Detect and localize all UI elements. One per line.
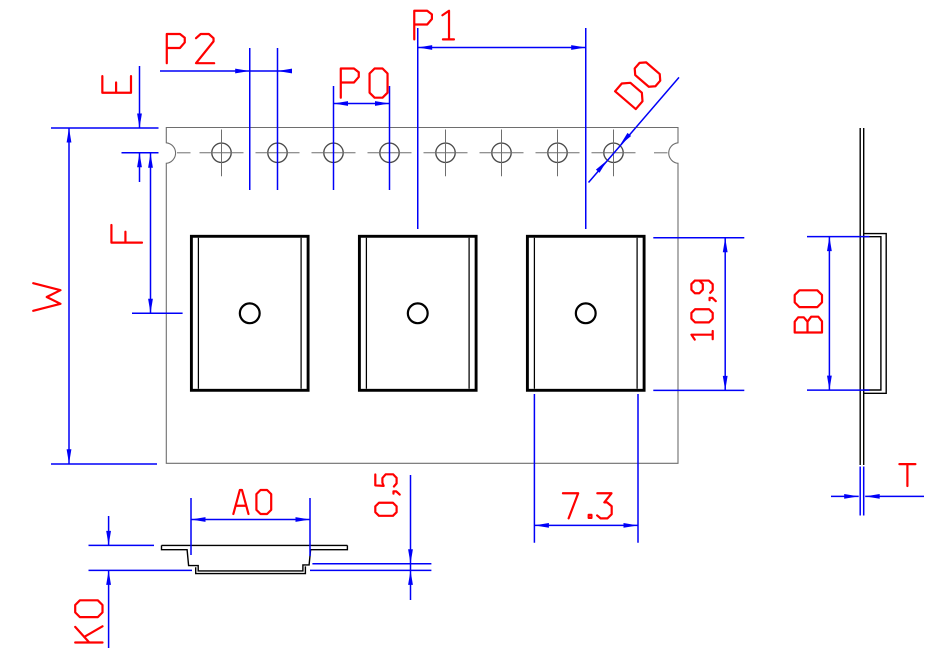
label D0: [615, 59, 663, 109]
dimension B0 arrow up: [827, 237, 832, 252]
dimension K0 line upper: [108, 516, 110, 545]
dimension A0 extension line right: [309, 498, 311, 556]
pocket 1 center hole: [240, 303, 260, 323]
dimension A0 arrow left: [191, 517, 206, 522]
dimension 7.3 extension line right: [637, 394, 639, 543]
carrier tape outline (plan view): [166, 128, 678, 464]
dimension E line upper: [139, 66, 141, 128]
dimension P2 arrow left: [278, 69, 293, 74]
pocket cross-section body: [162, 545, 348, 571]
dimension 7.3 extension line left: [533, 394, 535, 543]
dimension D0 arrow upper: [620, 133, 631, 146]
dimension E extension line at hole centerline: [122, 152, 159, 154]
label B0: [795, 290, 822, 332]
dimension 7.3 arrow left: [534, 523, 549, 528]
dimension D0 arrow lower: [596, 160, 607, 173]
dimension B0 extension line bottom: [807, 389, 870, 391]
dimension T line left: [831, 495, 859, 497]
pocket 2 left inner wall line: [365, 238, 367, 389]
dimension T arrow left: [865, 494, 880, 499]
sprocket hole 6: [480, 130, 524, 177]
dimension W line: [68, 128, 70, 464]
dimension E line lower: [139, 153, 141, 182]
dimension 0,5 arrow up: [408, 570, 413, 585]
dimension K0 arrow up: [106, 570, 111, 585]
pocket cross-section top surface: [162, 544, 348, 546]
label K0: [75, 600, 102, 642]
dimension K0 arrow down: [106, 531, 111, 546]
label E: [102, 76, 131, 93]
dimension P2 line: [160, 70, 292, 72]
pocket 1 left inner wall line: [197, 238, 199, 389]
dimension K0 line lower: [108, 570, 110, 648]
pocket 2 right inner wall line: [468, 238, 470, 389]
dimension T arrow right: [844, 494, 859, 499]
dimension 10,9 arrow down: [723, 376, 728, 391]
side view pocket bump inner: [864, 237, 881, 390]
label A0: [233, 490, 271, 514]
dimension P0 arrow right: [375, 101, 390, 106]
dimension P1 arrow right: [571, 45, 586, 50]
dimension B0 arrow down: [827, 376, 832, 391]
sprocket hole 1: [200, 130, 244, 177]
side view tape left surface: [859, 128, 861, 465]
pocket 3 outline: [527, 236, 644, 390]
label W: [33, 283, 60, 311]
pocket 1 right inner wall line: [300, 238, 302, 389]
sprocket hole 7: [536, 130, 580, 177]
dimension B0 line: [828, 237, 830, 391]
sprocket hole 8: [592, 130, 636, 177]
left edge notch centerline dash: [177, 152, 191, 154]
dimension K0 extension line bottom: [89, 569, 193, 571]
dimension P0 extension line at sprocket hole 4: [389, 86, 391, 190]
pocket cross-section floor outer line: [196, 566, 306, 573]
dimension D0 leader line: [589, 77, 680, 182]
dimension B0 extension line top: [807, 236, 870, 238]
label 10,9: [691, 281, 715, 340]
dimension E arrow up: [137, 153, 142, 168]
dimension W extension line top: [51, 127, 159, 129]
sprocket hole 5: [424, 130, 468, 177]
side view pocket bump outer: [864, 234, 887, 394]
dimension P2 extension line at pocket 1 center: [249, 48, 251, 190]
dimension 10,9 extension line top: [653, 237, 744, 239]
dimension A0 extension line left: [190, 498, 192, 555]
dimension W arrow down: [67, 449, 72, 464]
dimension F extension line at pocket centerline: [132, 312, 183, 314]
pocket 2 outline: [359, 236, 476, 390]
dimension T extension line right: [863, 467, 865, 516]
sprocket hole 4: [368, 130, 412, 177]
dimension 10,9 extension line bottom: [653, 389, 744, 391]
dimension A0 line: [191, 519, 310, 521]
sprocket hole 3: [312, 130, 356, 177]
dimension 10,9 line: [724, 238, 726, 391]
label P1: [414, 11, 454, 40]
pocket 2 center hole: [408, 303, 428, 323]
dimension P2 extension line at sprocket hole 2: [277, 48, 279, 190]
dimension 0,5 extension line upper: [312, 563, 431, 565]
dimension F arrow down: [148, 299, 153, 314]
dimension E arrow down: [137, 114, 142, 129]
dimension A0 arrow right: [296, 517, 311, 522]
dimension F line: [150, 153, 152, 313]
dimension 7.3 arrow right: [624, 523, 639, 528]
dimension 0,5 arrow down: [408, 549, 413, 564]
dimension P1 line: [418, 47, 586, 49]
label 7.3: [563, 493, 612, 518]
pocket 1 outline: [191, 236, 308, 390]
right edge notch centerline dash: [654, 152, 668, 154]
dimension T line right: [865, 495, 924, 497]
pocket 3 left inner wall line: [533, 238, 535, 389]
dimension P0 line: [334, 103, 390, 105]
dimension F arrow up: [148, 153, 153, 168]
label F: [111, 225, 142, 243]
dimension P1 arrow left: [418, 45, 432, 50]
pocket 3 center hole: [576, 303, 596, 323]
dimension 0,5 extension line lower: [310, 569, 431, 571]
dimension K0 extension line top: [89, 544, 155, 546]
label T: [899, 464, 915, 486]
dimension P0 extension line at sprocket hole 3: [333, 86, 335, 190]
dimension W extension line bottom: [51, 463, 157, 465]
dimension 0,5 line: [410, 475, 412, 600]
dimension P2 arrow right: [235, 69, 250, 74]
dimension W arrow up: [67, 128, 72, 143]
dimension P0 arrow left: [334, 101, 349, 106]
pocket 3 right inner wall line: [636, 238, 638, 389]
label 0,5: [375, 474, 399, 515]
label P2: [167, 34, 214, 63]
label P0: [341, 68, 388, 97]
dimension 7.3 line: [534, 524, 638, 526]
dimension P1 extension line at pocket 3 center: [585, 28, 587, 229]
side view tape right surface: [863, 128, 865, 465]
dimension T extension line left: [859, 467, 861, 516]
sprocket hole 2: [256, 130, 300, 177]
dimension 10,9 arrow up: [723, 238, 728, 253]
dimension P1 extension line at pocket 2 center: [417, 28, 419, 229]
